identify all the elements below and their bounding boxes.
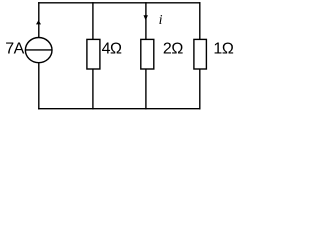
wire 2ohm branch lower [145,69,147,109]
wire 1ohm branch upper [199,2,201,39]
wire bottom rail [38,108,200,110]
wire top rail [38,2,200,4]
resistor R1 4ohm box [87,39,100,69]
wire 4ohm branch lower [92,69,94,109]
svg-text:i: i [159,13,163,28]
svg-text:4Ω: 4Ω [102,41,122,58]
resistor R2 2ohm box [141,39,154,69]
wire left branch lower [38,63,40,110]
current source arrow up [36,20,41,24]
current source I1 chord [26,49,52,51]
current i arrow down [144,15,148,20]
current source I1 circle [25,38,52,63]
wire 1ohm branch lower [199,69,201,109]
wire 4ohm branch upper [92,2,94,39]
wire left branch upper [38,2,40,38]
svg-text:1Ω: 1Ω [213,41,233,58]
svg-text:2Ω: 2Ω [163,41,183,58]
resistor R3 1ohm box [194,39,207,69]
wire 2ohm branch upper [145,2,147,39]
svg-text:7A: 7A [5,41,24,58]
